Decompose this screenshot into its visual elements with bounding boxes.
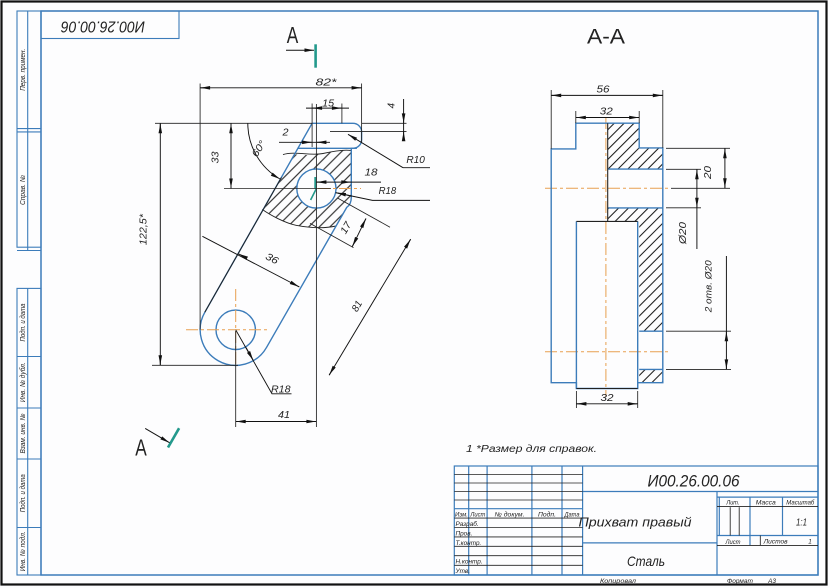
svg-text:Справ. №: Справ. № xyxy=(18,175,27,205)
svg-text:И00.26.00.06: И00.26.00.06 xyxy=(648,472,740,491)
svg-text:№ докум.: № докум. xyxy=(495,511,525,519)
svg-text:Сталь: Сталь xyxy=(627,553,665,569)
svg-text:122,5*: 122,5* xyxy=(138,213,149,245)
svg-text:Масштаб: Масштаб xyxy=(786,498,814,506)
svg-text:32: 32 xyxy=(600,107,614,118)
svg-text:Подп. и дата: Подп. и дата xyxy=(18,304,27,342)
svg-text:Н.контр.: Н.контр. xyxy=(456,559,483,566)
svg-text:4: 4 xyxy=(387,102,398,108)
svg-text:Копировал: Копировал xyxy=(600,578,636,585)
svg-text:82*: 82* xyxy=(316,77,339,88)
svg-text:Т.контр.: Т.контр. xyxy=(456,540,482,547)
svg-text:А3: А3 xyxy=(767,578,776,585)
svg-text:Дата: Дата xyxy=(564,512,580,519)
svg-text:32: 32 xyxy=(601,393,615,404)
svg-text:Взам. инв. №: Взам. инв. № xyxy=(18,413,27,453)
svg-text:2: 2 xyxy=(281,127,289,138)
svg-text:Изм.: Изм. xyxy=(455,512,468,519)
svg-text:И00.26.00.06: И00.26.00.06 xyxy=(61,18,145,35)
svg-text:R18: R18 xyxy=(271,384,291,395)
svg-text:Утв.: Утв. xyxy=(455,568,471,575)
svg-text:Перв. примен.: Перв. примен. xyxy=(18,49,27,91)
svg-text:20: 20 xyxy=(703,165,714,180)
svg-text:Лит.: Лит. xyxy=(726,499,740,506)
svg-text:А-А: А-А xyxy=(587,26,625,49)
svg-text:2 отв. Ø20: 2 отв. Ø20 xyxy=(704,260,715,314)
svg-text:1: 1 xyxy=(808,539,812,546)
svg-text:Разраб.: Разраб. xyxy=(456,520,479,528)
svg-text:Подп.: Подп. xyxy=(538,511,556,519)
svg-text:18: 18 xyxy=(365,168,379,179)
svg-text:1:1: 1:1 xyxy=(796,518,807,529)
svg-text:15: 15 xyxy=(322,98,334,109)
svg-text:R18: R18 xyxy=(379,186,397,197)
svg-text:Масса: Масса xyxy=(756,499,776,506)
svg-text:Листов: Листов xyxy=(763,539,789,546)
svg-text:Формат: Формат xyxy=(727,578,754,585)
svg-text:Прихват правый: Прихват правый xyxy=(579,515,692,530)
svg-text:Лист: Лист xyxy=(469,512,486,519)
svg-text:Инв. № дубл.: Инв. № дубл. xyxy=(18,362,27,402)
svg-text:Инв. № подл.: Инв. № подл. xyxy=(18,531,27,571)
svg-text:А: А xyxy=(287,22,299,48)
svg-text:Ø20: Ø20 xyxy=(678,221,689,245)
svg-text:Лист: Лист xyxy=(725,539,742,546)
svg-text:41: 41 xyxy=(278,410,290,421)
svg-text:1 *Размер для справок.: 1 *Размер для справок. xyxy=(466,444,597,455)
svg-text:Пров.: Пров. xyxy=(456,530,473,537)
svg-text:56: 56 xyxy=(597,85,611,96)
svg-text:R10: R10 xyxy=(406,155,425,166)
svg-text:33: 33 xyxy=(211,151,222,163)
svg-text:А: А xyxy=(135,435,147,461)
svg-text:Подп. и дата: Подп. и дата xyxy=(18,474,27,512)
